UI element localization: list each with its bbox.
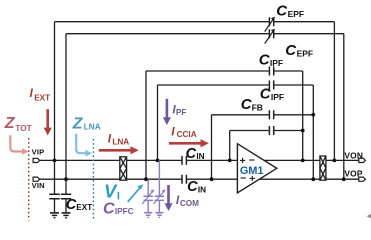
svg-text:I: I [117,191,120,203]
wire R1 outer top rail [55,21,335,23]
capacitor C_EPF top (tunable) [265,17,275,31]
svg-text:LNA: LNA [84,123,101,132]
svg-text:VOP: VOP [344,169,363,179]
op-amp GM1 [237,144,276,193]
svg-text:PF: PF [176,108,186,117]
svg-text:FB: FB [252,102,263,112]
wire R4 C_IPF rail 2 [158,84,314,86]
wire C_FB1 left vertical [211,115,213,179]
wire v2 right vertical R4-R5-VOP [312,85,314,179]
svg-text:IN: IN [198,185,206,194]
svg-text:EXT: EXT [34,94,50,103]
svg-text:VIP: VIP [32,148,45,157]
wire C_IPF2 left vertical [157,85,159,160]
wire left loop vertical to VIP [54,22,56,194]
svg-text:Z: Z [4,115,16,132]
svg-text:VIN: VIN [32,181,45,190]
wire R2 second top rail [66,33,344,35]
arrow I_PF (purple, down) [163,99,171,125]
svg-text:C: C [276,2,288,19]
decorative corner mark [367,214,371,219]
svg-text:C: C [187,179,198,195]
svg-text:COM: COM [180,199,199,208]
svg-text:+: + [249,173,255,185]
boundary dashed line Z_LNA (teal) [92,139,94,221]
svg-text:V: V [104,180,118,201]
capacitor C_EPF bottom (tunable) [265,29,275,43]
arrow Z_TOT elbow (salmon) [10,135,28,155]
arrow I_LNA (red, right) [99,146,139,154]
port VON [359,158,366,162]
svg-text:C: C [103,201,115,218]
capacitor C_FB 1 [269,110,273,119]
wire C_IPF1 left vertical [145,71,147,179]
svg-text:−: − [240,173,246,185]
capacitor C_EXT 1 [49,194,59,212]
wire GM1 output bottom [259,178,320,180]
wire second loop vertical to VIN [65,34,67,194]
wire VIP input row [40,159,238,161]
wire VOP to port [326,178,359,180]
svg-text:EXT: EXT [76,203,92,212]
svg-text:IPF: IPF [270,58,283,68]
wire VIN input row [40,178,238,180]
svg-text:VON: VON [344,151,363,161]
svg-text:C: C [285,42,297,59]
junction dots [53,113,346,181]
wire VON to port [326,159,359,161]
capacitor C_FB 2 [269,126,273,135]
svg-text:EPF: EPF [288,9,305,19]
arrow Z_LNA elbow (light blue) [76,134,92,157]
svg-text:EPF: EPF [297,48,314,58]
capacitor C_EXT 2 [61,194,71,212]
wire R3 C_IPF rail 1 [146,70,303,72]
svg-text:Z: Z [72,115,84,132]
arrow I_EXT (dark red, down) [44,109,52,135]
arrow I_COM (purple, down) [165,185,173,211]
wire v4 outer right vertical R2-VOP [343,34,345,180]
arrow V_I annotation (cyan diagonal) [128,184,144,202]
svg-text:TOT: TOT [15,124,31,133]
svg-text:CCIA: CCIA [177,130,197,139]
capacitor C_IPF 1 [269,67,273,76]
arrow I_CCIA (red, right) [169,139,209,147]
capacitor C_IN top [182,156,186,165]
wire v1 right vertical R3-R6-VON [302,71,304,160]
ground for C_EXT 2 [62,213,71,218]
port VIP [33,158,40,162]
wire R6 C_FB rail 2 [230,130,303,132]
boundary dashed line Z_TOT (maroon) [28,138,30,221]
svg-text:IPF: IPF [271,92,284,102]
svg-text:IPFC: IPFC [115,207,134,216]
svg-text:IN: IN [196,152,204,161]
chopper CH2 (output) [320,156,326,180]
port VOP [359,177,366,181]
wire R5 C_FB rail 1 [212,114,314,116]
wire C_FB2 left vertical [229,131,231,161]
wire v3 outer right vertical R1-VON [333,22,335,161]
svg-text:C: C [186,146,197,162]
chopper CH1 (input) [120,157,127,180]
svg-text:C: C [66,197,77,213]
capacitor C_IPF 2 [269,81,273,90]
ground for C_IPFC 1 (purple) [144,213,152,218]
capacitor C_IPFC 2 (tunable, purple) [154,160,165,212]
ground for C_EXT 1 [50,213,59,218]
capacitor C_IN bottom [182,175,186,184]
port VIN [33,177,40,181]
wire GM1 output top [264,159,320,161]
svg-text:LNA: LNA [112,137,129,146]
capacitor C_IPFC 1 (tunable, purple) [142,179,153,212]
ground for C_IPFC 2 (purple) [155,213,163,218]
